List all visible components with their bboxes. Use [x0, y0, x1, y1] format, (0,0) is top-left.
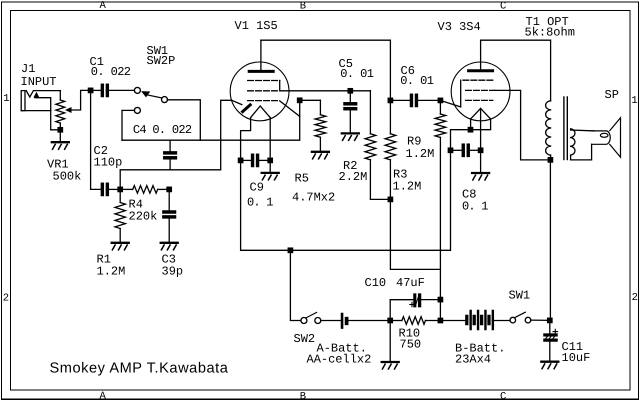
- V1 control grid exit diagonal: [280, 101, 300, 117]
- wire junction down to SW2: [290, 250, 301, 320]
- wire C1 to SW1 pole: [107, 89, 134, 91]
- ground at V3 filament: [472, 173, 489, 180]
- svg-text:V1 1S5: V1 1S5: [235, 19, 278, 33]
- node C1 input junction: [88, 88, 92, 92]
- capacitor C2: [101, 183, 108, 195]
- wire T1 secondary bottom to speaker: [571, 144, 592, 160]
- wire B+ down to SW1 node: [549, 160, 551, 321]
- T1 core lines: [563, 97, 565, 160]
- V3 grid bracket left: [460, 80, 462, 107]
- wire C9 right to ground: [269, 160, 271, 173]
- node C2/R4/R1 junction: [118, 187, 122, 191]
- svg-text:2: 2: [632, 292, 638, 304]
- svg-text:39p: 39p: [162, 265, 184, 279]
- wire VR1 wiper to C1 node: [71, 90, 91, 110]
- wire SW1 to B+ node: [531, 319, 551, 321]
- V3 filament: [471, 108, 491, 119]
- node C8 right: [478, 148, 482, 152]
- wire C4 to R4 bus: [169, 159, 171, 170]
- node R4/C3 junction: [167, 187, 171, 191]
- node C9 right: [268, 158, 272, 162]
- wire V3 filament left to C8/A-: [451, 130, 471, 151]
- svg-text:J1: J1: [21, 62, 35, 76]
- resistor R5: [315, 115, 326, 137]
- V1 plate bar: [249, 70, 273, 73]
- switch SW1 throw contact C: [134, 107, 140, 113]
- svg-text:110p: 110p: [94, 156, 123, 170]
- C11 plus mark: [553, 331, 558, 333]
- svg-text:1: 1: [631, 95, 637, 107]
- ground at C9: [262, 173, 279, 180]
- SW1 bottom lever: [515, 312, 525, 317]
- SW2 lever: [307, 312, 317, 317]
- ground at VR1: [52, 142, 69, 149]
- node C9 left: [238, 158, 242, 162]
- node V1 grid junction: [298, 98, 302, 102]
- node R10 right junction: [438, 318, 442, 322]
- speaker SP voice coil body: [592, 131, 611, 144]
- svg-text:23Ax4: 23Ax4: [455, 353, 491, 367]
- svg-text:INPUT: INPUT: [21, 75, 57, 89]
- connector J1 input jack: [21, 91, 60, 111]
- VR1 wiper arrow: [65, 107, 72, 113]
- capacitor C5: [344, 103, 357, 110]
- svg-text:Smokey AMP T.Kawabata: Smokey AMP T.Kawabata: [50, 360, 229, 376]
- V3 grid row 3: [466, 99, 493, 101]
- tube V3 3S4 envelope: [451, 62, 510, 121]
- wire T1 secondary top to speaker: [571, 129, 594, 132]
- svg-text:C9: C9: [250, 181, 264, 195]
- V1 filament: [251, 106, 271, 118]
- wire SW2 to A battery: [321, 320, 342, 322]
- V1 grid row 1: [248, 80, 280, 82]
- wire T1 primary bottom to B+ node: [550, 155, 552, 160]
- node C10 right junction: [438, 297, 442, 301]
- capacitor C11 electrolytic: [549, 320, 551, 334]
- switch SW2 contact right: [315, 318, 321, 324]
- ground at C5: [342, 133, 359, 140]
- svg-text:SW2P: SW2P: [147, 54, 176, 68]
- wire V3 plate to T1: [481, 40, 551, 101]
- wire VR1 junction to ground: [59, 130, 61, 142]
- svg-text:1.2M: 1.2M: [97, 265, 126, 279]
- capacitor C3: [163, 211, 176, 218]
- node C6 right junction: [438, 98, 442, 102]
- svg-text:C: C: [500, 0, 506, 12]
- V1 diode plate lead diagonal: [232, 100, 242, 104]
- wire R10 node up to C10: [390, 300, 412, 321]
- wire V1 filament right pin: [269, 118, 271, 161]
- battery B-Batt 4 cells: [466, 315, 468, 324]
- svg-text:B: B: [300, 1, 306, 13]
- switch SW1 bottom contact right: [525, 317, 531, 323]
- wire grid bus to C4: [169, 140, 171, 152]
- wire SW1 throw C to grid bus: [122, 110, 134, 140]
- wire R2 bottom to R3 line: [370, 160, 390, 200]
- ground at C11: [541, 362, 558, 369]
- switch SW1 pole contact: [134, 87, 140, 93]
- node R10 left junction: [388, 318, 392, 322]
- resistor R2: [365, 134, 376, 160]
- capacitor C4: [164, 152, 177, 159]
- ground at C3: [161, 243, 178, 250]
- V1 diode plate slash: [243, 105, 251, 112]
- svg-text:SW2: SW2: [294, 332, 316, 346]
- C10 polarity hatch and plus: [416, 296, 419, 306]
- resistor R10: [402, 317, 426, 325]
- svg-text:C: C: [500, 391, 506, 400]
- wire B battery to SW1: [492, 320, 510, 322]
- ground at battery common: [382, 362, 399, 369]
- V3 filament pins box: [471, 119, 491, 130]
- ground at R5: [312, 152, 329, 159]
- wire grid node to R5: [300, 99, 321, 101]
- V3 grid row 2: [466, 89, 495, 91]
- wire C10 right to node: [421, 299, 441, 301]
- SP cone: [610, 118, 621, 157]
- SW1 arrow lever: [141, 91, 150, 97]
- wire V1 plate to C6: [261, 40, 391, 100]
- wire V1 filament left pin: [241, 118, 251, 161]
- svg-text:47uF: 47uF: [396, 276, 425, 290]
- node C5 junction: [348, 89, 352, 93]
- V3 plate bar: [469, 69, 493, 72]
- wire R10 left node to ground: [389, 321, 391, 363]
- svg-text:4.7Mx2: 4.7Mx2: [292, 191, 335, 205]
- tube V1 1S5 envelope: [230, 62, 289, 121]
- svg-text:SP: SP: [605, 88, 619, 102]
- wire grid bus: [122, 100, 300, 140]
- wire screen bus corner to R2: [369, 91, 371, 134]
- capacitor C1: [101, 84, 108, 96]
- node B+ / C11 junction: [548, 318, 552, 322]
- node VR1 bottom junction: [58, 128, 62, 132]
- J1 shorting contact arrow: [33, 92, 39, 98]
- svg-text:220k: 220k: [129, 210, 158, 224]
- wire R4 bus riser: [120, 100, 232, 189]
- wire C1 node down to C2: [91, 90, 102, 189]
- svg-text:SW1: SW1: [509, 289, 531, 303]
- svg-text:AA-cellx2: AA-cellx2: [307, 353, 372, 367]
- svg-text:1.2M: 1.2M: [406, 147, 435, 161]
- wire J1 shorting contact to ground node: [35, 98, 60, 130]
- wire SW1 throw B to grid bus: [167, 100, 200, 140]
- svg-text:0. 1: 0. 1: [462, 200, 488, 214]
- capacitor C6: [410, 94, 417, 106]
- svg-text:1.2M: 1.2M: [393, 180, 422, 194]
- svg-text:C4 0. 022: C4 0. 022: [133, 123, 192, 137]
- svg-text:0. 1: 0. 1: [247, 196, 273, 210]
- V1 grid row 3: [248, 100, 278, 102]
- transformer T1 primary winding: [546, 101, 551, 155]
- wire node to C1: [91, 89, 102, 91]
- wire C2 to R4 node: [107, 188, 120, 190]
- svg-text:0. 01: 0. 01: [400, 74, 433, 88]
- svg-text:B: B: [300, 391, 306, 400]
- node T1 B+ junction: [548, 158, 552, 162]
- svg-text:V3 3S4: V3 3S4: [438, 20, 481, 34]
- wire V1 filament left to A- bus: [241, 150, 451, 250]
- svg-text:0. 022: 0. 022: [91, 65, 131, 79]
- V1 grid row 2: [248, 90, 278, 92]
- svg-text:2.2M: 2.2M: [339, 170, 368, 184]
- wire A battery to R10 node: [348, 320, 390, 322]
- VR1 top lead: [59, 91, 61, 100]
- svg-text:A: A: [100, 391, 107, 400]
- switch SW1 throw contact B: [162, 97, 168, 103]
- V3 filament center tap to ground: [480, 108, 482, 173]
- C11 hatch marks: [545, 336, 555, 339]
- SP magnet ellipse: [600, 133, 608, 137]
- V3 plate lead: [480, 40, 482, 69]
- resistor R4: [133, 186, 158, 194]
- capacitor C9: [252, 154, 259, 166]
- svg-text:2: 2: [3, 292, 9, 304]
- resistor R9: [435, 114, 446, 137]
- svg-text:5k:8ohm: 5k:8ohm: [525, 25, 575, 39]
- node C8 left: [448, 148, 452, 152]
- capacitor C8: [462, 144, 469, 156]
- svg-text:C10: C10: [365, 276, 387, 290]
- svg-text:0. 01: 0. 01: [340, 67, 373, 81]
- resistor R1: [115, 203, 125, 229]
- potentiometer VR1 body: [56, 100, 65, 123]
- capacitor C10 electrolytic: [414, 294, 416, 307]
- svg-text:R5: R5: [295, 172, 309, 186]
- wire R9 bottom long drop to battery node: [439, 137, 441, 320]
- svg-text:10uF: 10uF: [562, 351, 591, 365]
- transformer T1 secondary winding: [571, 129, 575, 155]
- V3 control grid diagonal to C6 node: [441, 101, 461, 107]
- V3 screen wire to B+: [495, 90, 551, 159]
- resistor R3: [385, 134, 396, 160]
- node R2/R3 junction: [388, 197, 392, 201]
- ground at R1: [112, 243, 129, 250]
- switch SW1 bottom contact left: [510, 317, 516, 323]
- V3 grid row 1: [463, 79, 493, 81]
- svg-text:A: A: [100, 0, 107, 12]
- node C6 left junction: [388, 98, 392, 102]
- switch SW2 contact left: [301, 318, 307, 324]
- battery A-Batt cell: [341, 313, 342, 328]
- node A- bus to SW2 junction: [288, 248, 292, 252]
- node V3 filament left: [468, 128, 472, 132]
- V1 grid bracket: [280, 81, 371, 91]
- svg-text:500k: 500k: [53, 170, 82, 184]
- svg-text:1: 1: [3, 93, 9, 105]
- VR1 bottom lead: [59, 123, 61, 130]
- svg-text:750: 750: [400, 338, 422, 352]
- wire R10 right to B battery: [443, 320, 465, 322]
- wire R3 bottom to R9 line: [390, 160, 440, 270]
- R4 leads: [120, 188, 133, 190]
- V1 plate lead: [260, 40, 262, 70]
